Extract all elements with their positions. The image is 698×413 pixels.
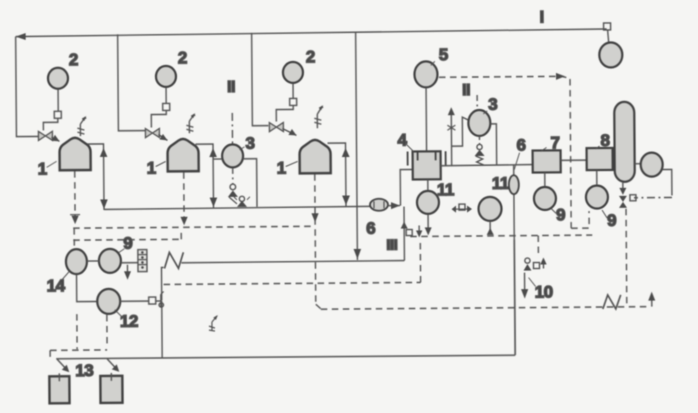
- label 10: [529, 277, 553, 301]
- arrow down on C riser: [342, 195, 350, 205]
- valve square (B): [163, 103, 170, 110]
- wire dashed collect line lower: [73, 228, 181, 240]
- vessel 9 (c): [99, 249, 121, 273]
- wire tank C bottom drain (dashed): [315, 174, 321, 309]
- wire dashed collect line upper: [73, 226, 314, 228]
- valve square at right end of header: [604, 23, 611, 43]
- vessel 2 (group B): [156, 66, 176, 87]
- arrow pump discharge: [388, 202, 400, 209]
- svg-text:II: II: [227, 79, 235, 96]
- valve check glyph between 11a and 11b: [451, 204, 472, 213]
- tank 4: [408, 151, 446, 179]
- label 9 (b): [602, 210, 616, 230]
- wire riser bottom header to drain header: [513, 240, 516, 355]
- svg-text:5: 5: [439, 45, 448, 64]
- wire circle11a down to dashed drain: [425, 214, 432, 235]
- wire recycle line from header down: [356, 32, 358, 260]
- vessel 11 (circle a): [417, 191, 439, 214]
- svg-text:10: 10: [535, 282, 553, 301]
- arrow up on B riser: [209, 148, 217, 157]
- svg-text:6: 6: [366, 219, 375, 238]
- wire discharge down to III valve: [403, 207, 405, 261]
- valve below column: [619, 182, 636, 208]
- label 14: [47, 271, 70, 295]
- wire circle11b down to dashed drain: [487, 221, 494, 235]
- wire tank4 bottom to circle11a: [427, 179, 429, 190]
- wire dashed from column valve down: [625, 209, 628, 306]
- wire discharge up to tank 4: [400, 169, 413, 205]
- valve III assembly: [401, 221, 423, 237]
- wire dash-dot below circle3: [232, 168, 234, 184]
- wire dashed 12 drain: [106, 315, 108, 347]
- svg-text:4: 4: [397, 131, 407, 150]
- valve 10: [523, 257, 546, 270]
- arrow down on B riser: [210, 198, 218, 208]
- wire tank A bottom drain (dashed): [74, 171, 76, 221]
- wire feed B from header: [118, 34, 146, 131]
- wire column to receiver: [635, 163, 641, 165]
- arrow down on A riser: [100, 199, 108, 209]
- valve bowtie C: [269, 123, 283, 132]
- wire circle3R right leg to line7: [490, 124, 496, 165]
- exchanger 8: [587, 148, 613, 170]
- label 4: [397, 130, 413, 151]
- wire tank C outlet riser: [328, 143, 346, 206]
- wire N down leg: [161, 267, 163, 300]
- column (capsule): [614, 102, 635, 182]
- wire 14 to 9c: [87, 260, 99, 262]
- wire circle3 right to pump line: [243, 159, 257, 207]
- arrow up on A riser: [100, 148, 108, 157]
- svg-text:II: II: [462, 82, 470, 99]
- relief valve glyph (B): [186, 113, 195, 133]
- wire dashed drain header: [410, 235, 592, 236]
- arrow on II transfer: [556, 73, 565, 80]
- wire dash-dot above circle3: [231, 113, 233, 144]
- arrow on C drain: [311, 213, 318, 222]
- wire circle5 to tank4: [425, 87, 428, 167]
- wire dashed 14 drain: [76, 314, 78, 349]
- label 3 (right): [483, 95, 497, 114]
- valve riser from tank4 to circle3 right: [447, 107, 468, 165]
- wire dash-dot above circle3 right: [476, 95, 478, 109]
- arrow into tank C dome: [282, 128, 296, 135]
- svg-text:2: 2: [306, 47, 315, 66]
- wire dashed II line corner to 9b: [571, 211, 589, 228]
- vessel 2 (group C): [283, 62, 303, 83]
- wire 14 down to 12: [77, 274, 97, 302]
- relief valve glyph (A): [77, 116, 86, 136]
- arrow into tank A dome: [51, 135, 59, 142]
- vessel receiver right of column: [641, 153, 663, 177]
- wire zigzag to line7: [476, 156, 484, 165]
- vessel 3 (left): [222, 144, 243, 167]
- wire dashed II transfer with arrow: [439, 76, 571, 229]
- vessel 2 (group A): [48, 68, 68, 89]
- svg-text:I: I: [539, 7, 543, 26]
- wire down from 12 line to bottom header: [161, 301, 163, 357]
- wire pump suction header: [104, 206, 370, 209]
- label 8: [595, 131, 609, 150]
- svg-text:1: 1: [38, 159, 47, 178]
- label 9 (c): [118, 234, 132, 253]
- wire dashed drum feed line: [50, 350, 107, 358]
- valve glyph on pump header: [234, 196, 250, 207]
- svg-text:11: 11: [492, 174, 509, 193]
- arrow up on C riser: [342, 148, 350, 157]
- wire feed C from header: [252, 33, 269, 126]
- wire tank B outlet riser: [196, 144, 214, 208]
- label 7: [540, 133, 559, 152]
- label 6 (capsule): [514, 136, 526, 170]
- svg-text:2: 2: [69, 50, 78, 69]
- vessel 5: [414, 61, 437, 87]
- wire feed A from header: [16, 36, 39, 136]
- valve glyph below circle3: [228, 184, 238, 204]
- wire elbow square B to mixing tee: [151, 110, 166, 127]
- svg-text:9: 9: [556, 205, 565, 224]
- svg-text:7: 7: [550, 133, 559, 152]
- wire top header line I: [16, 28, 607, 40]
- drum 13 (a): [49, 373, 69, 403]
- pump capsule on line 6: [509, 165, 520, 355]
- strainer (hatched box): [138, 250, 147, 272]
- wire N to solids line: [181, 261, 404, 263]
- arrow down after 9c: [124, 265, 131, 280]
- valve bowtie A: [38, 131, 52, 140]
- arrow 10 outlet: [521, 273, 528, 299]
- label 1 (C): [277, 158, 298, 177]
- wire tank B bottom drain (dashed): [183, 172, 185, 221]
- tank 1 (C): [299, 140, 330, 174]
- break symbol N (left): [164, 252, 183, 268]
- tank 1 (B): [167, 139, 198, 172]
- svg-text:9: 9: [123, 234, 132, 253]
- wire 9c to strainer: [121, 262, 137, 264]
- wire 7 to 8: [561, 159, 587, 161]
- relief valve glyph (C): [314, 105, 323, 128]
- svg-text:8: 8: [600, 131, 609, 150]
- wire dashed branch to valve 10: [537, 236, 539, 256]
- svg-text:6: 6: [516, 136, 525, 155]
- valve square (C): [290, 98, 297, 105]
- wire circle2A to valve: [57, 89, 59, 111]
- vessel 9 (under 8): [586, 185, 608, 208]
- arrow tip of A drain: [71, 216, 78, 225]
- wire tank4 right to exchanger 7: [441, 165, 533, 166]
- label 12: [115, 310, 138, 331]
- wire 12 right to valve: [120, 300, 148, 302]
- svg-text:13: 13: [75, 361, 93, 380]
- break symbol N (right): [603, 295, 621, 309]
- tank 1 (A): [59, 138, 90, 171]
- switch glyph to drum 13a: [57, 359, 69, 372]
- arrow down on recycle line: [354, 249, 362, 259]
- svg-text:1: 1: [277, 158, 286, 177]
- label 1 (B): [147, 158, 166, 177]
- valve square (A): [54, 111, 61, 118]
- label 3 (left): [239, 134, 254, 153]
- wire dashed bottom return: [321, 307, 649, 310]
- svg-text:1: 1: [147, 159, 156, 178]
- wire elbow square A to mixing tee: [43, 118, 58, 130]
- label 5: [431, 45, 448, 65]
- svg-text:3: 3: [245, 134, 254, 153]
- wire dashed mid return line: [163, 240, 420, 284]
- exchanger 7: [533, 150, 561, 172]
- valve bowtie B: [145, 128, 159, 137]
- valve glyph below circle3R: [474, 136, 484, 156]
- wire 8 to 9b: [596, 170, 598, 185]
- svg-text:2: 2: [178, 48, 187, 67]
- wire elbow square C to mixing tee: [276, 105, 293, 121]
- arrow up at right end of bottom return: [648, 292, 655, 307]
- wire dashed stub into circle14: [73, 228, 75, 248]
- wire circle2C to valve: [292, 83, 294, 98]
- pump 6 (ellipse): [370, 199, 388, 211]
- vessel 14: [66, 249, 87, 274]
- hand valve glyph mid-bottom: [209, 315, 218, 331]
- wire receiver to dash-dot return: [634, 169, 672, 197]
- svg-text:III: III: [386, 237, 397, 254]
- drum 13 (b): [100, 373, 122, 403]
- vessel 11 (circle b): [478, 197, 501, 221]
- wire circle3 to B riser: [213, 158, 222, 160]
- svg-text:9: 9: [607, 211, 616, 230]
- wire tank A outlet riser: [88, 144, 105, 210]
- svg-text:11: 11: [437, 180, 454, 199]
- arrow tip of B drain: [180, 217, 187, 226]
- switch glyph to drum 13b: [107, 359, 119, 372]
- vessel 3 (right): [468, 110, 490, 136]
- svg-text:12: 12: [120, 312, 138, 331]
- valve square on 12 line: [149, 291, 164, 307]
- label 9 (a): [551, 205, 565, 224]
- wire circle2B to valve: [165, 87, 167, 103]
- wire bottom solids header: [56, 355, 515, 359]
- arrow into tank B dome: [158, 134, 167, 141]
- svg-text:3: 3: [488, 95, 497, 114]
- wire 7 to 9a: [544, 172, 546, 186]
- tick at A drain end: [70, 214, 80, 216]
- vessel 9 (under 7): [534, 187, 556, 210]
- vessel (circle) top right: [599, 42, 622, 67]
- vessel 12: [97, 289, 120, 314]
- label 1 (A): [38, 159, 57, 178]
